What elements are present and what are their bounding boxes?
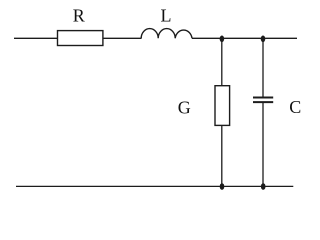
wire top-left segment xyxy=(14,37,58,39)
svg-text:G: G xyxy=(178,98,191,118)
wire top-right segment xyxy=(192,37,297,39)
svg-text:C: C xyxy=(289,97,301,117)
wire node to G top xyxy=(221,38,223,86)
capacitor C1 top plate xyxy=(253,97,273,99)
wire G bottom to bottom rail xyxy=(221,125,223,186)
inductor L1 coil xyxy=(141,29,192,39)
node bottom-left junction xyxy=(220,183,225,190)
capacitor C1 bottom plate xyxy=(253,101,273,103)
wire capacitor bottom to bottom rail xyxy=(262,102,264,186)
resistor R1 body xyxy=(58,31,103,46)
svg-text:L: L xyxy=(161,6,172,26)
node top-right junction xyxy=(261,36,266,43)
wire between resistor and inductor xyxy=(103,37,142,39)
svg-text:R: R xyxy=(73,6,85,26)
node top-left junction xyxy=(220,36,225,43)
node bottom-right junction xyxy=(261,183,266,190)
wire bottom rail xyxy=(16,185,293,187)
wire node to capacitor top plate xyxy=(262,38,264,97)
resistor G body (shunt conductance) xyxy=(215,86,230,126)
